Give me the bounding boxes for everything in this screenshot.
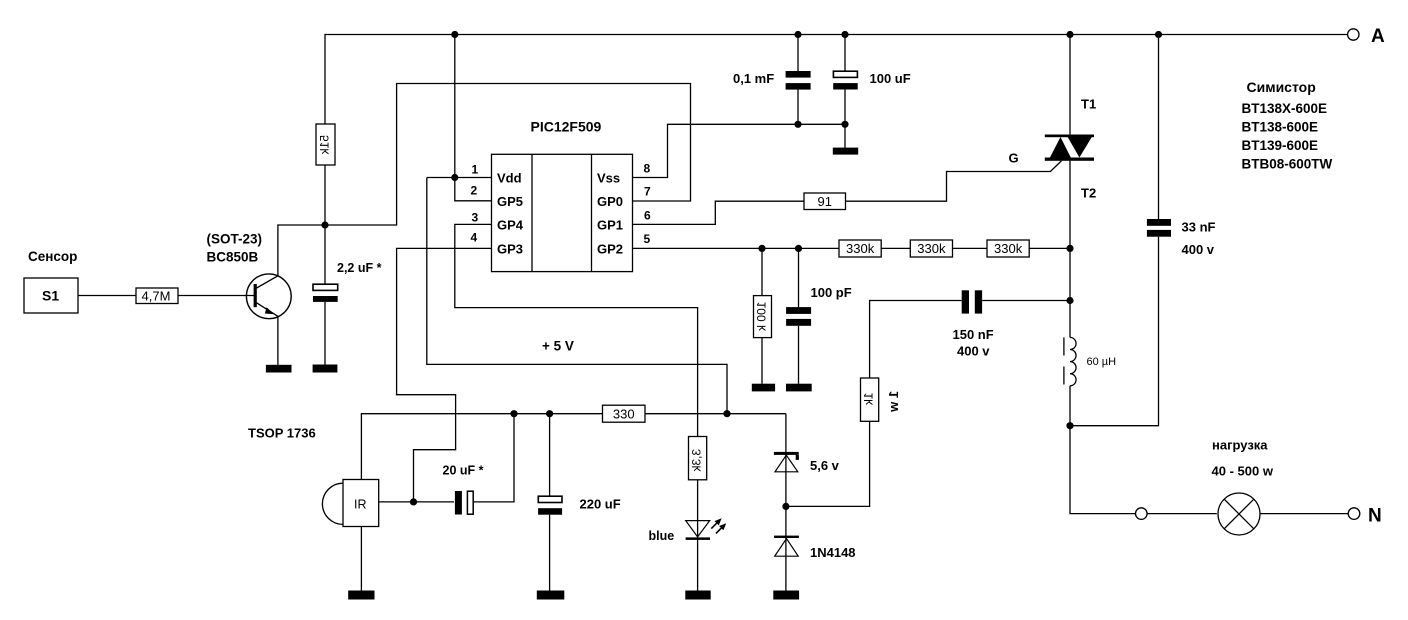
capacitor 33 nF xyxy=(1070,35,1216,426)
svg-text:Сенсор: Сенсор xyxy=(28,249,77,264)
node 150nF at triac line xyxy=(1066,297,1073,304)
wire S1 to R 4,7M xyxy=(78,295,136,297)
svg-text:N: N xyxy=(1368,506,1382,527)
lamp нагрузка xyxy=(1212,438,1274,536)
wire 330k2 to 330k3 xyxy=(953,247,988,249)
svg-text:1N4148: 1N4148 xyxy=(810,545,856,560)
svg-text:PIC12F509: PIC12F509 xyxy=(531,119,602,135)
svg-text:330k: 330k xyxy=(846,241,875,256)
node triac T1 top xyxy=(1066,31,1073,38)
node 0,1mF bottom xyxy=(794,121,801,128)
wire top +5V rail xyxy=(325,35,1348,125)
svg-text:330k: 330k xyxy=(994,241,1023,256)
capacitor 100 uF xyxy=(833,35,911,148)
svg-text:40 - 500 w: 40 - 500 w xyxy=(1212,464,1274,479)
svg-text:150 nF: 150 nF xyxy=(953,327,994,342)
node 20uF riser xyxy=(510,410,517,417)
node 100uF top xyxy=(841,31,848,38)
ground Q1 emitter xyxy=(266,365,292,373)
svg-text:BTB08-600TW: BTB08-600TW xyxy=(1242,157,1333,172)
capacitor 220 uF xyxy=(538,414,621,591)
svg-text:33 nF: 33 nF xyxy=(1182,220,1216,235)
svg-text:(SOT-23): (SOT-23) xyxy=(207,232,263,247)
terminal A xyxy=(1348,26,1385,47)
svg-text:400 v: 400 v xyxy=(1182,242,1215,257)
svg-text:1 w: 1 w xyxy=(886,391,901,413)
ground 220uF xyxy=(537,591,565,600)
wire Q1 emitter down xyxy=(277,316,279,365)
svg-text:220 uF: 220 uF xyxy=(580,497,621,512)
svg-text:G: G xyxy=(1009,151,1019,166)
ground 100pF xyxy=(786,384,812,392)
wire 51k to junction xyxy=(324,165,326,225)
node 0,1mF top xyxy=(794,31,801,38)
IR receiver TSOP xyxy=(322,480,378,527)
wire 4,7M to base Q1 xyxy=(178,295,254,297)
svg-text:100 k: 100 k xyxy=(754,302,768,332)
svg-text:нагрузка: нагрузка xyxy=(1212,438,1268,453)
svg-text:4: 4 xyxy=(471,231,478,245)
resistor 330k first xyxy=(839,240,881,257)
wire GP4 pin3 net to 3,3k xyxy=(455,224,698,436)
svg-text:2: 2 xyxy=(471,184,478,198)
svg-text:Симистор: Симистор xyxy=(1247,79,1316,95)
resistor 4,7M xyxy=(136,288,178,304)
svg-text:GP2: GP2 xyxy=(597,242,623,257)
resistor 1k xyxy=(861,378,902,421)
wire Vdd riser xyxy=(454,35,456,178)
svg-text:GP5: GP5 xyxy=(497,194,523,209)
svg-text:A: A xyxy=(1371,26,1385,47)
svg-text:400 v: 400 v xyxy=(957,344,990,359)
svg-text:S1: S1 xyxy=(42,288,59,304)
ground IR xyxy=(348,591,374,600)
terminal load left xyxy=(1136,508,1148,520)
svg-text:GP0: GP0 xyxy=(597,194,623,209)
svg-text:BT138-600E: BT138-600E xyxy=(1242,120,1319,135)
svg-text:100 uF: 100 uF xyxy=(870,71,911,86)
node 100k tap xyxy=(758,245,765,252)
svg-text:0,1 mF: 0,1 mF xyxy=(733,71,774,86)
svg-text:8: 8 xyxy=(644,162,651,176)
wire IR gnd lead xyxy=(360,527,362,591)
inductor 60uH xyxy=(1064,337,1116,425)
svg-text:2,2 uF *: 2,2 uF * xyxy=(337,261,382,275)
node 330k chain at triac xyxy=(1066,245,1073,252)
svg-text:51k: 51k xyxy=(318,135,332,155)
svg-text:BT139-600E: BT139-600E xyxy=(1242,138,1319,153)
resistor 330k second xyxy=(910,240,952,257)
resistor 51k xyxy=(316,124,335,165)
node IR out / GP3 xyxy=(410,498,417,505)
ground 2,2uF xyxy=(313,365,338,373)
wire 330k3 to triac line xyxy=(1029,247,1070,249)
transistor Q1 BC850B xyxy=(207,232,292,319)
wire IR out xyxy=(379,501,454,503)
wire GP1 pin6 to R91 xyxy=(633,201,805,224)
capacitor 2,2uF xyxy=(313,225,382,365)
resistor 330 xyxy=(603,405,646,422)
svg-text:GP1: GP1 xyxy=(597,218,623,233)
ground 100uF xyxy=(833,148,858,155)
svg-text:6: 6 xyxy=(644,209,651,223)
svg-text:TSOP 1736: TSOP 1736 xyxy=(248,426,316,441)
wire GP0 pin7 loop to collector node xyxy=(325,84,691,226)
svg-text:100 pF: 100 pF xyxy=(811,285,852,300)
capacitor 100 pF xyxy=(786,248,852,383)
wire 330row to zener xyxy=(785,414,787,453)
svg-text:4,7M: 4,7M xyxy=(142,289,171,304)
wire to load xyxy=(1070,426,1136,514)
wire node to 1k bottom xyxy=(786,421,870,506)
wire GP3 pin4 net to IR out xyxy=(397,248,492,502)
sensor plate S1 xyxy=(24,278,78,313)
svg-text:BC850B: BC850B xyxy=(207,250,259,265)
svg-text:1k: 1k xyxy=(862,392,876,406)
IC U1 PIC12F509 xyxy=(492,119,633,272)
wire GP2 pin5 line xyxy=(633,247,840,249)
wire Vss pin8 loop to gnd rail xyxy=(633,124,846,177)
svg-text:91: 91 xyxy=(818,194,832,209)
svg-text:3,3k: 3,3k xyxy=(689,449,703,473)
resistor 100k xyxy=(754,248,772,383)
wire 330 to zener branch xyxy=(645,413,786,415)
svg-text:GP3: GP3 xyxy=(497,242,523,257)
svg-text:1: 1 xyxy=(472,163,479,177)
ground LED xyxy=(685,591,710,600)
node 33nF top xyxy=(1155,31,1162,38)
wire 330k1 to 330k2 xyxy=(881,247,910,249)
svg-text:330k: 330k xyxy=(917,241,946,256)
svg-text:Vdd: Vdd xyxy=(497,171,522,186)
svg-text:7: 7 xyxy=(644,185,651,199)
node Vdd pin1 junction xyxy=(451,174,458,181)
svg-text:blue: blue xyxy=(649,529,675,543)
node collector / 51k / 2,2uF junction xyxy=(321,221,328,228)
wire lamp to N xyxy=(1260,513,1348,515)
node 100uF bottom xyxy=(841,121,848,128)
LED blue xyxy=(649,480,727,591)
svg-text:T2: T2 xyxy=(1081,186,1096,201)
svg-text:+ 5 V: + 5 V xyxy=(542,339,574,354)
wire R91 to gate G xyxy=(846,161,1062,201)
wire +5V net from Vdd xyxy=(427,178,727,414)
node inductor bottom xyxy=(1066,422,1073,429)
svg-text:330: 330 xyxy=(613,407,635,422)
node zener / 1N4148 / 1k xyxy=(782,503,789,510)
svg-text:5: 5 xyxy=(644,232,651,246)
svg-text:5,6 v: 5,6 v xyxy=(810,458,840,473)
wire Vdd pin1 stub xyxy=(427,177,492,179)
resistor 3,3k xyxy=(689,437,707,480)
capacitor 0,1 mF xyxy=(733,35,811,125)
triac T1 xyxy=(1009,35,1097,338)
svg-text:T1: T1 xyxy=(1081,97,1096,112)
terminal N xyxy=(1348,506,1382,527)
svg-text:60 µH: 60 µH xyxy=(1087,356,1117,368)
wire 330 row rail xyxy=(361,414,602,480)
svg-text:3: 3 xyxy=(472,211,479,225)
svg-text:20 uF *: 20 uF * xyxy=(443,464,484,478)
node 220uF riser xyxy=(546,410,553,417)
node 100pF tap xyxy=(795,245,802,252)
wire GP5 pin2 to Vdd node xyxy=(455,178,492,201)
wire 1k top to 150nF xyxy=(870,301,962,379)
ground 100k xyxy=(752,384,775,392)
wire Q1 collector up xyxy=(278,225,325,276)
wire terminal to lamp xyxy=(1147,513,1217,515)
label Симистор xyxy=(1242,79,1333,172)
ground 1N4148 xyxy=(773,591,799,600)
svg-text:BT138X-600E: BT138X-600E xyxy=(1242,101,1328,116)
capacitor 150 nF xyxy=(953,290,1071,358)
zener 5,6v xyxy=(774,452,840,507)
resistor 330k third xyxy=(987,240,1029,257)
svg-text:GP4: GP4 xyxy=(497,218,524,233)
resistor 91 xyxy=(804,193,846,210)
svg-text:IR: IR xyxy=(354,498,367,512)
svg-text:Vss: Vss xyxy=(597,171,620,186)
node top rail / Vdd riser junction xyxy=(451,31,458,38)
capacitor 20 uF xyxy=(443,414,515,515)
diode 1N4148 xyxy=(774,506,856,590)
node +5V drop on 330 row xyxy=(723,410,730,417)
